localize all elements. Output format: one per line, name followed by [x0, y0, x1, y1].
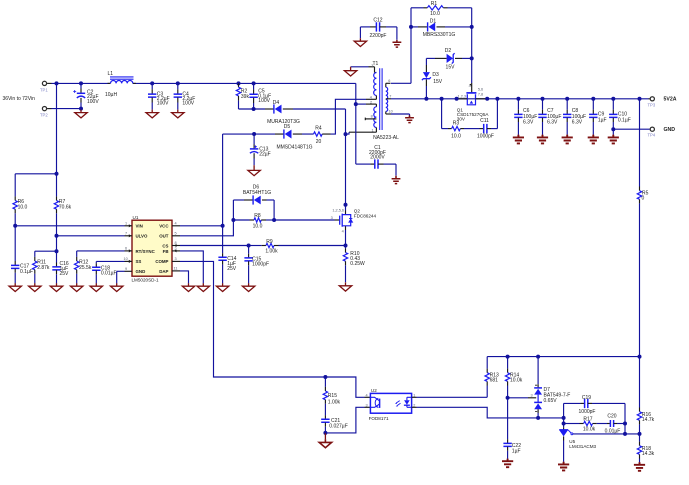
ic U1 pin stubs left — [125, 224, 133, 271]
junction ULVO node — [55, 234, 59, 238]
svg-text:FDC86244: FDC86244 — [354, 214, 377, 219]
svg-text:4: 4 — [366, 393, 368, 397]
svg-text:15V: 15V — [446, 64, 456, 70]
svg-text:2: 2 — [370, 101, 372, 105]
earth ground under C22 — [502, 459, 513, 468]
optocoupler U2 body — [369, 388, 412, 421]
svg-text:1: 1 — [413, 393, 415, 397]
junction VIN node — [13, 224, 17, 228]
ground under C17 — [9, 283, 21, 291]
svg-text:D5: D5 — [284, 124, 291, 130]
svg-text:25V: 25V — [227, 266, 237, 272]
svg-text:D2: D2 — [445, 48, 452, 54]
svg-text:2000V: 2000V — [370, 155, 385, 161]
svg-text:2: 2 — [413, 403, 415, 407]
junction D7 bottom — [536, 416, 540, 420]
resistor R9 — [249, 239, 346, 255]
ic U1 pin numbers — [124, 221, 178, 270]
junction D1 right — [470, 25, 474, 29]
ground under C2 — [75, 109, 87, 118]
inductor L1 — [105, 71, 136, 98]
capacitor C18 — [92, 263, 116, 283]
wire Vin+ top rail — [52, 82, 356, 84]
wire left drop to R6/R7 — [56, 83, 58, 173]
resistor R10 — [343, 246, 365, 283]
svg-text:10.0: 10.0 — [451, 133, 461, 139]
resistor R2 — [236, 83, 249, 109]
svg-text:100V: 100V — [87, 99, 99, 105]
transformer T1 primary upper winding (pins 3-4) — [366, 67, 376, 100]
junction Q1 source — [455, 97, 459, 101]
svg-text:GND: GND — [136, 269, 146, 274]
junction R14 top — [506, 355, 510, 359]
resistor R18 — [637, 434, 654, 462]
wire RT/SYNC — [77, 251, 125, 257]
svg-text:TP2: TP2 — [40, 113, 48, 118]
capacitor C4 — [174, 83, 196, 109]
transformer T1 core — [380, 68, 382, 130]
svg-text:R1: R1 — [431, 1, 438, 7]
wire GND pin — [117, 271, 125, 283]
svg-text:C20: C20 — [607, 413, 616, 419]
svg-text:FB: FB — [163, 249, 169, 254]
wire pin 1 to switch node — [346, 132, 350, 134]
node VIN+ input label — [3, 96, 36, 102]
resistor R5 — [637, 99, 648, 357]
svg-text:0.027µF: 0.027µF — [329, 424, 347, 430]
wire FB to ground — [180, 251, 203, 284]
junction comp/REF — [623, 432, 627, 436]
svg-text:L1: L1 — [108, 71, 114, 77]
junction pin 2 / Vin+ — [354, 102, 358, 106]
capacitor C15 — [244, 246, 269, 284]
svg-text:1µF: 1µF — [598, 117, 607, 123]
svg-text:MMSD4148T1G: MMSD4148T1G — [276, 144, 312, 150]
svg-text:6.3V: 6.3V — [547, 120, 558, 126]
svg-text:6.3V: 6.3V — [572, 120, 583, 126]
capacitor C11 — [477, 99, 497, 140]
ground under C13 — [248, 165, 260, 176]
junction D2 right — [470, 56, 474, 60]
diode D6 — [233, 185, 274, 205]
svg-text:14.3k: 14.3k — [642, 451, 655, 457]
mosfet Q2 — [331, 205, 377, 246]
wire ULVO to U1 — [57, 235, 125, 237]
wire GND to TP4 — [613, 128, 650, 130]
ground under C18 — [90, 283, 102, 291]
svg-text:5: 5 — [175, 231, 177, 235]
wire VCC bus corner — [223, 133, 255, 135]
junction C7 top — [541, 97, 545, 101]
wire clamp bottom rail — [239, 108, 274, 110]
capacitor C13 — [250, 134, 271, 165]
svg-text:8: 8 — [371, 114, 373, 118]
svg-text:TP1: TP1 — [40, 88, 48, 93]
junction switch node — [344, 132, 348, 136]
capacitor C17 — [11, 226, 33, 284]
svg-text:SS: SS — [136, 259, 142, 264]
resistor R6 — [13, 174, 28, 226]
junction R14 bottom — [506, 396, 510, 400]
node 5V2A output label — [664, 97, 677, 103]
junction Q2 drain — [344, 203, 348, 207]
junction C9 top — [591, 97, 595, 101]
resistor R12 — [74, 257, 91, 284]
wire SS — [96, 261, 124, 263]
svg-text:14.7k: 14.7k — [642, 417, 655, 423]
wire REF line — [573, 433, 640, 435]
resistor R13 — [485, 357, 499, 398]
earth ground under C9 — [588, 135, 599, 144]
wire R4 to transformer pin 4 — [331, 99, 367, 134]
wire gate node vertical — [471, 8, 473, 83]
earth ground under U5 — [558, 462, 569, 471]
svg-text:0.1µF: 0.1µF — [618, 117, 631, 123]
wire VCC bus vertical — [222, 134, 224, 253]
optocoupler U2 phototransistor — [370, 397, 379, 408]
svg-text:11: 11 — [174, 266, 178, 270]
svg-text:0.1µF: 0.1µF — [20, 269, 33, 275]
wire VIN to U1 — [15, 225, 124, 227]
svg-text:T1: T1 — [373, 61, 379, 67]
capacitor C8 — [563, 99, 586, 135]
junction R2 top — [237, 81, 241, 85]
wire OUT to gate drive — [180, 220, 233, 236]
svg-text:39k: 39k — [241, 94, 250, 100]
wire to R6 — [15, 173, 56, 175]
zener D2 — [426, 48, 471, 70]
svg-text:10.0: 10.0 — [253, 224, 263, 230]
svg-text:LM5020SD-1: LM5020SD-1 — [132, 278, 160, 283]
wire gate to Q2 — [274, 219, 340, 221]
svg-text:1,2,3: 1,2,3 — [458, 94, 466, 98]
diode D4 — [267, 100, 300, 125]
svg-text:BAT54HT1G: BAT54HT1G — [243, 190, 271, 196]
svg-text:COMP: COMP — [155, 259, 168, 264]
wire D6 left leg — [232, 200, 234, 220]
svg-text:FOD8171: FOD8171 — [369, 416, 389, 421]
resistor R7 — [54, 174, 71, 236]
junction R6 branch — [55, 172, 59, 176]
svg-text:VCC: VCC — [159, 224, 169, 229]
transformer pin numbers — [370, 64, 393, 133]
junction D7 top — [536, 355, 540, 359]
svg-text:7,8: 7,8 — [478, 93, 483, 97]
svg-text:10µH: 10µH — [105, 92, 117, 98]
junction R17 left — [562, 422, 566, 426]
svg-text:6.3V: 6.3V — [523, 120, 534, 126]
ground under C16 — [50, 283, 62, 291]
svg-text:10.0: 10.0 — [430, 11, 440, 17]
svg-text:100V: 100V — [258, 98, 270, 104]
svg-text:0: 0 — [642, 195, 645, 201]
svg-text:2200pF: 2200pF — [370, 33, 387, 39]
wire opto emitter to ground — [325, 407, 370, 433]
svg-text:1µF: 1µF — [512, 449, 521, 455]
wire comp net to REF — [624, 424, 626, 434]
svg-text:7: 7 — [389, 95, 391, 99]
junction C6 top — [516, 97, 520, 101]
svg-text:6: 6 — [388, 79, 390, 83]
transformer T1 secondary winding (pins 6-7-10) — [386, 83, 391, 114]
ground under C15 — [242, 283, 254, 291]
junction top rail / left drop — [55, 81, 59, 85]
resistor R11 — [33, 251, 50, 283]
junction feedback rail right — [638, 355, 642, 359]
svg-text:1.00k: 1.00k — [328, 399, 341, 405]
svg-text:5V2A: 5V2A — [664, 97, 677, 103]
wire transformer pin3 to ground — [351, 66, 375, 68]
optocoupler U2 led — [395, 397, 412, 407]
svg-text:100V: 100V — [182, 100, 194, 106]
ground at DAP — [182, 283, 194, 291]
diode D7 dual — [534, 357, 570, 418]
resistor R17 — [564, 417, 607, 433]
svg-text:OUT: OUT — [159, 234, 169, 239]
earth ground under C8 — [562, 135, 573, 144]
ground under C4 — [172, 110, 184, 118]
svg-text:C19: C19 — [582, 395, 591, 401]
wire D6 right leg — [273, 200, 275, 220]
capacitor C14 — [218, 253, 236, 283]
junction gate drive right — [272, 218, 276, 222]
svg-text:R8: R8 — [254, 213, 261, 219]
ground under R10 — [339, 282, 351, 291]
svg-text:4: 4 — [175, 221, 177, 225]
svg-text:100V: 100V — [157, 100, 169, 106]
wire C22 drop — [507, 398, 509, 439]
ground under C14 — [216, 283, 228, 291]
testpoint TP3 — [648, 97, 656, 108]
svg-text:0.01µF: 0.01µF — [101, 271, 117, 277]
svg-text:7: 7 — [125, 231, 127, 235]
svg-text:CS: CS — [162, 243, 168, 248]
capacitor C21 — [321, 415, 348, 433]
svg-text:3: 3 — [175, 257, 177, 261]
svg-text:20: 20 — [316, 139, 322, 145]
earth ground under C1 — [392, 176, 401, 184]
wire Q2 drain — [345, 134, 347, 205]
wire Vin+ drop to pin 2 and C1 — [355, 83, 357, 164]
svg-text:25.5k: 25.5k — [79, 265, 92, 271]
svg-text:C11: C11 — [480, 118, 489, 124]
junction D1 left — [409, 25, 413, 29]
svg-text:DAP: DAP — [159, 269, 168, 274]
wire right column to R16 — [639, 357, 641, 408]
junction R5 top — [638, 97, 642, 101]
svg-text:0.25W: 0.25W — [350, 261, 365, 267]
testpoint TP1 — [40, 81, 52, 92]
resistor R4 — [293, 126, 331, 145]
wire COMP to opto collector — [325, 377, 370, 397]
svg-text:ULVO: ULVO — [136, 234, 148, 239]
svg-text:4: 4 — [370, 95, 372, 99]
wire DAP — [180, 271, 189, 284]
ground under R12 — [71, 283, 83, 291]
diode D1 — [411, 19, 472, 38]
diode D5 — [276, 124, 312, 150]
svg-text:1,2,5,6: 1,2,5,6 — [332, 209, 344, 213]
zener D3 — [422, 58, 443, 98]
svg-text:1000pF: 1000pF — [252, 262, 269, 268]
wire opto pin2 rail — [412, 407, 564, 418]
earth ground right of C12 — [393, 27, 402, 47]
resistor R1 — [411, 1, 472, 17]
svg-text:25V: 25V — [60, 271, 70, 277]
ground at pin 3 — [344, 67, 356, 76]
earth ground under R18 — [634, 462, 645, 471]
svg-text:R4: R4 — [315, 126, 322, 132]
svg-text:5,6: 5,6 — [478, 88, 483, 92]
earth ground under C10 — [608, 135, 619, 144]
capacitor C22 — [503, 439, 521, 459]
svg-text:10.0k: 10.0k — [510, 378, 523, 384]
junction C21 bottom — [323, 431, 327, 435]
svg-text:2.87k: 2.87k — [37, 265, 50, 271]
junction R17/C20 right — [623, 422, 627, 426]
svg-text:NA5223-AL: NA5223-AL — [373, 135, 399, 141]
svg-text:1: 1 — [372, 129, 374, 133]
wire TL431 cathode node — [563, 403, 565, 427]
wire D4 anode to switch node — [283, 109, 346, 134]
svg-text:681: 681 — [490, 378, 499, 384]
wire TP2 to C2 bottom — [52, 108, 82, 110]
optocoupler U2 pin numbers — [366, 393, 416, 407]
capacitor C19 — [564, 395, 625, 415]
svg-text:TP4: TP4 — [648, 133, 656, 138]
shunt regulator U5 LM431 — [559, 427, 596, 462]
wire secondary output rail — [391, 98, 650, 100]
svg-text:15V: 15V — [433, 79, 443, 85]
svg-text:3: 3 — [371, 64, 373, 68]
svg-text:VIN: VIN — [136, 224, 143, 229]
junction REF node — [638, 432, 642, 436]
capacitor C10 — [609, 99, 631, 135]
svg-text:10: 10 — [389, 110, 393, 114]
svg-text:TP3: TP3 — [648, 102, 656, 107]
mosfet Q1 — [457, 88, 490, 122]
svg-text:1000pF: 1000pF — [579, 409, 596, 415]
capacitor C16 — [52, 251, 69, 283]
svg-text:4: 4 — [342, 230, 344, 234]
earth ground at pin 10 — [405, 115, 414, 122]
svg-text:R15: R15 — [328, 393, 337, 399]
capacitor C1 — [356, 145, 396, 176]
transformer T1 label — [373, 61, 379, 67]
junction C5 bottom — [252, 107, 256, 111]
wire pin 2 lead — [356, 103, 366, 105]
junction C2 top — [79, 81, 83, 85]
resistor R14 — [505, 357, 522, 398]
junction C2 / TP2 wire — [79, 107, 83, 111]
earth ground under C6 — [513, 135, 524, 144]
svg-text:C12: C12 — [373, 18, 382, 24]
testpoint TP4 — [648, 127, 656, 138]
svg-text:D3: D3 — [432, 72, 439, 78]
svg-text:1.00k: 1.00k — [265, 249, 278, 255]
svg-text:3: 3 — [366, 403, 368, 407]
svg-text:36Vin to 72Vin: 36Vin to 72Vin — [3, 96, 36, 102]
transformer T1 primary lower winding (pins 2-1) — [349, 104, 376, 132]
junction gate drive left — [231, 218, 235, 222]
junction C15 top — [247, 244, 251, 248]
transformer T1 pin 8 stub — [365, 118, 376, 121]
capacitor C12 — [360, 18, 397, 39]
ground left of C12 — [354, 27, 366, 47]
capacitor C6 — [514, 99, 537, 135]
junction C10 / GND wire — [611, 127, 615, 131]
svg-text:2: 2 — [175, 247, 177, 251]
resistor R15 — [323, 377, 340, 415]
svg-text:MBRS330T1G: MBRS330T1G — [423, 32, 456, 38]
svg-text:0.65V: 0.65V — [544, 398, 558, 404]
ground at FB — [197, 283, 209, 291]
svg-text:6: 6 — [125, 246, 127, 250]
svg-text:70.6k: 70.6k — [59, 204, 72, 210]
ground under C3 — [146, 110, 158, 118]
ground under R11 — [29, 283, 41, 291]
svg-text:R9: R9 — [266, 239, 273, 245]
wire pin 10 to ground — [391, 114, 410, 116]
capacitor C3 — [148, 83, 170, 109]
ic U1 pin names — [136, 224, 170, 274]
wire feedback top rail — [487, 356, 639, 358]
junction snubber left — [440, 97, 444, 101]
wire R14 to D7 mid — [508, 393, 537, 397]
svg-text:U1: U1 — [133, 215, 139, 220]
svg-text:D1: D1 — [430, 19, 437, 25]
junction C5 top — [252, 81, 256, 85]
svg-text:10: 10 — [124, 257, 128, 261]
wire CS — [180, 245, 249, 247]
junction C3 top — [150, 81, 154, 85]
mosfet Q1 gate lead — [469, 83, 472, 93]
svg-text:3: 3 — [531, 393, 533, 397]
junction R15 top — [323, 375, 327, 379]
wire pin 6 to gate network — [391, 8, 411, 84]
capacitor C9 — [589, 99, 607, 135]
wire COMP — [180, 261, 325, 377]
junction opto rail / TL431 node — [562, 416, 566, 420]
svg-text:9: 9 — [125, 267, 127, 271]
testpoint TP2 — [40, 107, 52, 118]
wire C13 junction to D5 — [254, 133, 284, 135]
svg-text:RT/SYNC: RT/SYNC — [136, 249, 156, 254]
svg-text:GND: GND — [664, 127, 676, 133]
svg-text:22µF: 22µF — [259, 151, 271, 157]
wire opto pin1 to R13 — [412, 396, 488, 398]
node GND output label — [664, 127, 676, 133]
wire ULVO divider drop — [56, 236, 58, 251]
ic U1 pin stubs right — [172, 226, 180, 271]
resistor R8 — [233, 213, 274, 229]
svg-text:R3: R3 — [453, 120, 460, 126]
ic U1 body — [132, 215, 173, 283]
junction Q1 drain — [485, 97, 489, 101]
junction R11/C16 node — [55, 249, 59, 253]
svg-text:LM431ACM3: LM431ACM3 — [569, 444, 596, 449]
capacitor C5 — [249, 83, 271, 109]
capacitor C2 — [73, 83, 99, 108]
resistor R16 — [637, 408, 654, 434]
svg-text:1: 1 — [125, 221, 127, 225]
junction C10 top — [611, 97, 615, 101]
junction Q2 source / CS — [344, 244, 348, 248]
junction D3 bottom on rail — [424, 97, 428, 101]
svg-text:U2: U2 — [371, 388, 377, 393]
wire C19 right leg — [624, 403, 626, 423]
svg-text:1000pF: 1000pF — [477, 133, 494, 139]
